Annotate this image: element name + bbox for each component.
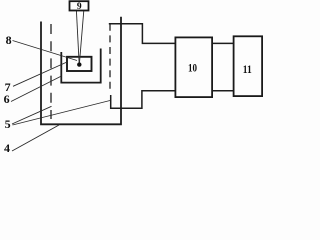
sample dot 8 [77, 62, 81, 66]
svg-text:10: 10 [188, 61, 197, 75]
beam line left [76, 11, 79, 63]
svg-text:11: 11 [243, 62, 252, 76]
box 10 [175, 37, 212, 97]
dashed heater line right (5) [109, 24, 111, 90]
crucible box 7 [67, 57, 92, 71]
box 11 [234, 36, 263, 96]
top duct to box 10 [109, 24, 176, 44]
svg-text:6: 6 [4, 92, 10, 106]
bottom duct to box 10 [111, 91, 176, 109]
cup 6 (inner open vessel) [61, 49, 100, 83]
leader 7 [13, 62, 67, 86]
leader 6 [11, 76, 62, 102]
svg-text:5: 5 [5, 117, 11, 131]
leader 5b [13, 101, 111, 126]
svg-text:8: 8 [6, 33, 12, 47]
leader 8 [13, 41, 78, 61]
svg-text:9: 9 [77, 2, 82, 12]
connector 10-11 top [212, 42, 234, 44]
beam line right [80, 11, 84, 63]
leader 4 [12, 125, 59, 151]
svg-text:4: 4 [4, 141, 10, 155]
chamber 4 (outer vessel, open top) [41, 17, 121, 125]
dashed heater line left (5) [50, 24, 52, 119]
leader 5a [12, 106, 52, 124]
connector 10-11 bottom [212, 90, 234, 92]
detector box 9 [70, 1, 89, 10]
